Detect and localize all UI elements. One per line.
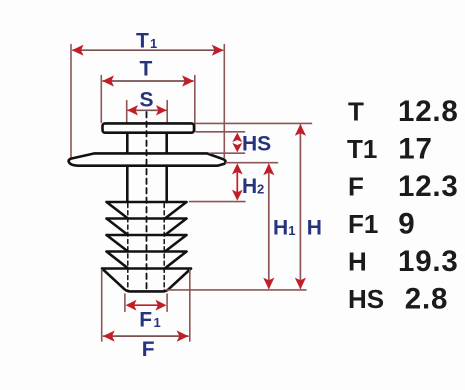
fir-tree rib 4 (107, 252, 187, 269)
dimension S line (128, 109, 166, 111)
dimension F extension line left (101, 270, 103, 341)
svg-text:F: F (348, 171, 364, 201)
svg-text:S: S (140, 88, 154, 111)
svg-text:12.3: 12.3 (398, 170, 459, 203)
svg-text:12.8: 12.8 (398, 95, 459, 128)
dimension H arrow bottom (295, 278, 306, 290)
dimension H extension line top (196, 122, 312, 124)
clip upper stem left edge (126, 133, 129, 155)
svg-text:F: F (142, 338, 155, 361)
clip washer flange (69, 153, 226, 165)
dimension H2 extension line top (226, 162, 278, 164)
dimension F1 extension line right (166, 294, 168, 311)
dimension H1 arrow bottom (263, 278, 274, 290)
dimension T1 arrow right (212, 45, 224, 56)
dimension T1 extension line right (223, 45, 225, 158)
dimension T extension line right (194, 76, 196, 132)
fir-tree rib 3 (107, 235, 187, 252)
dimension F extension line right (189, 270, 191, 341)
dimension H arrow top (295, 124, 306, 136)
dimension F line (104, 335, 189, 337)
dimension T extension line left (100, 76, 102, 123)
dimension F arrow left (103, 331, 115, 342)
svg-text:H: H (242, 175, 257, 198)
svg-text:F1: F1 (348, 209, 378, 239)
svg-text:9: 9 (398, 207, 415, 240)
dimension F arrow right (177, 331, 189, 342)
dimension H2 arrows (232, 163, 243, 174)
dimension F1 arrows (126, 300, 137, 311)
dimension T1 extension line left (70, 45, 72, 158)
dimension T arrow left (102, 75, 114, 86)
dimension H extension line bottom (167, 289, 307, 291)
dimension F1 extension line left (124, 294, 126, 311)
dimension HS arrows (232, 133, 242, 143)
center axis dashed line (146, 112, 148, 291)
dimension T arrow right (182, 75, 194, 86)
inner hidden dashed line right (163, 204, 165, 291)
svg-text:T1: T1 (347, 134, 377, 164)
dimension T line (103, 80, 193, 82)
clip lower stem left edge (126, 166, 129, 202)
dimension H2 extension line bottom (190, 201, 246, 203)
dimension H1 arrow top (263, 163, 274, 175)
svg-text:HS: HS (242, 133, 271, 156)
svg-text:T: T (136, 29, 149, 52)
dimension T1 arrow left (72, 45, 84, 56)
dimension S extension line left (126, 101, 128, 123)
svg-text:19.3: 19.3 (398, 245, 459, 278)
svg-text:H: H (307, 217, 322, 240)
clip lower stem right edge (165, 166, 168, 202)
clip cap head (103, 123, 195, 132)
clip upper stem right edge (165, 133, 168, 155)
dimension S extension line right (166, 101, 168, 123)
svg-text:HS: HS (348, 284, 384, 314)
bottom cone (102, 269, 191, 292)
svg-text:H: H (348, 246, 367, 276)
svg-text:1: 1 (288, 223, 295, 238)
svg-text:2.8: 2.8 (405, 282, 448, 315)
svg-text:1: 1 (154, 315, 161, 330)
dimension HS extension line bottom (210, 152, 245, 154)
svg-text:T: T (348, 96, 364, 126)
fir-tree rib 2 (107, 219, 187, 236)
dimension HS extension line top (196, 131, 245, 133)
dimension H1 line (268, 165, 270, 288)
svg-text:17: 17 (398, 132, 432, 165)
svg-text:F: F (139, 308, 152, 331)
dimension H line (299, 125, 301, 288)
svg-text:H: H (273, 217, 288, 240)
fir-tree rib 1 (107, 202, 187, 219)
svg-text:2: 2 (257, 181, 264, 196)
dimension S arrow left (127, 105, 138, 115)
dimension T1 line (73, 49, 223, 51)
inner hidden dashed line left (127, 204, 129, 291)
svg-text:1: 1 (150, 36, 157, 51)
svg-text:T: T (140, 57, 153, 80)
dimension S arrow right (156, 105, 167, 115)
